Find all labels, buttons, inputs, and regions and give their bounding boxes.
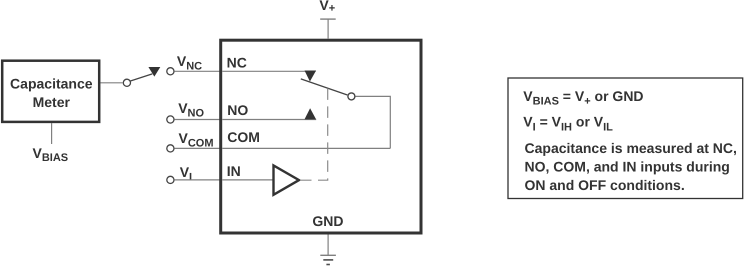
wire COM internal: [222, 147, 390, 149]
switch NC arrowhead: [305, 71, 317, 82]
svg-text:V+: V+: [319, 0, 335, 15]
wire VNC to NC pin: [175, 70, 221, 72]
svg-text:VBIAS: VBIAS: [33, 145, 69, 164]
svg-text:VNC: VNC: [177, 53, 202, 72]
wire V+ stub: [327, 19, 329, 39]
switch S1 blade: [130, 74, 152, 81]
wire IN internal: [222, 179, 273, 181]
dashed control line: [300, 87, 328, 181]
switch throw contact circle: [348, 93, 355, 100]
note box: [508, 78, 743, 199]
svg-text:COM: COM: [227, 129, 260, 145]
node VNC terminal: [167, 68, 174, 75]
power V+ terminal bar: [320, 18, 336, 20]
wire NO internal: [222, 119, 316, 121]
svg-text:VI: VI: [180, 164, 192, 183]
svg-text:VCOM: VCOM: [179, 130, 214, 150]
svg-text:Capacitance is measured at NC,: Capacitance is measured at NC,: [525, 140, 737, 156]
wire VBIAS stub: [51, 123, 53, 144]
switch S1 arrowhead: [148, 67, 160, 77]
wire VI to IN pin: [175, 179, 221, 181]
wire NC internal: [222, 70, 316, 72]
svg-text:IN: IN: [227, 163, 241, 179]
svg-text:NO: NO: [227, 102, 248, 118]
buffer amplifier driver: [274, 165, 300, 194]
svg-text:GND: GND: [312, 213, 343, 229]
svg-text:Meter: Meter: [33, 94, 71, 110]
DUT package box U1: [221, 40, 421, 233]
ground symbol: [320, 255, 336, 264]
wire VCOM to COM pin: [175, 147, 221, 149]
svg-text:Capacitance: Capacitance: [10, 76, 93, 92]
svg-text:VNO: VNO: [178, 100, 204, 119]
svg-text:NO, COM, and IN inputs during: NO, COM, and IN inputs during: [525, 159, 730, 175]
switch NO arrowhead: [305, 108, 317, 119]
switch S1 pole contact: [123, 79, 130, 86]
capacitance meter box: [2, 61, 99, 122]
wire GND stub: [327, 235, 329, 256]
wire VNO to NO pin: [175, 119, 221, 121]
wire throw to COM: [355, 96, 390, 148]
node VI terminal: [167, 176, 174, 183]
switch internal blade: [301, 79, 348, 95]
wire meter output: [101, 82, 123, 84]
node VNO terminal: [167, 116, 174, 123]
svg-text:ON and OFF conditions.: ON and OFF conditions.: [525, 177, 685, 193]
svg-text:NC: NC: [227, 54, 247, 70]
node VCOM terminal: [167, 145, 174, 152]
